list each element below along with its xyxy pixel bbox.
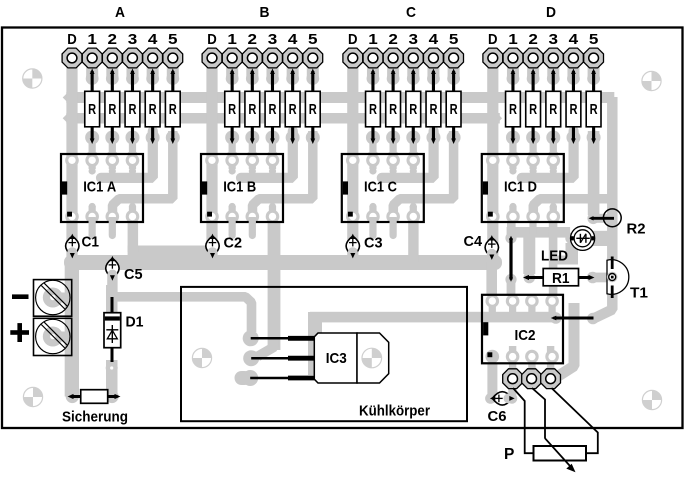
- svg-text:C6: C6: [488, 408, 507, 425]
- resistor B2: [245, 69, 260, 145]
- svg-text:R: R: [309, 101, 317, 118]
- screw terminal plus: [36, 319, 70, 353]
- trace pad under minus screw: [43, 288, 70, 308]
- svg-text:R: R: [289, 101, 297, 118]
- wire pot left: [513, 388, 534, 453]
- screw terminal minus: [36, 280, 70, 314]
- svg-text:IC3: IC3: [326, 351, 347, 367]
- pad labels group C: [348, 31, 458, 48]
- svg-text:R: R: [429, 101, 437, 118]
- svg-text:R2: R2: [627, 221, 646, 238]
- svg-text:5: 5: [168, 31, 178, 48]
- trace fuse right pad: [105, 390, 118, 403]
- svg-text:3: 3: [128, 31, 138, 48]
- fiducial heatsink: [192, 348, 211, 367]
- svg-text:R: R: [590, 101, 598, 118]
- svg-text:2: 2: [528, 31, 538, 48]
- svg-text:R: R: [228, 101, 236, 118]
- resistor D5: [586, 69, 601, 145]
- svg-text:D1: D1: [126, 314, 145, 331]
- trace LED feed band from IC1 D: [507, 217, 570, 238]
- resistor B5: [305, 69, 320, 145]
- trace stubs below IC1 B pads 2-3: [229, 217, 256, 239]
- svg-text:Kühlkörper: Kühlkörper: [359, 403, 430, 420]
- svg-text:1: 1: [508, 31, 518, 48]
- potentiometer P body: [534, 446, 587, 461]
- trace vertical IC1 D pad4 area to IC2 pad4: [549, 232, 558, 301]
- trace cap pads C2: [207, 234, 218, 262]
- resistor B1: [225, 69, 240, 145]
- op-amp IC2: [482, 294, 563, 363]
- trace cap pads C1: [67, 234, 78, 262]
- svg-text:IC1 D: IC1 D: [504, 179, 537, 195]
- resistor A4: [145, 69, 160, 145]
- trace lower band to D1 and IC3 pin1: [108, 297, 252, 332]
- resistor D4: [566, 69, 581, 145]
- trace wire W2 bottom pad and stub: [505, 274, 516, 301]
- svg-text:IC1 C: IC1 C: [364, 179, 397, 195]
- svg-text:3: 3: [549, 31, 559, 48]
- svg-text:R: R: [369, 101, 377, 118]
- trace IC1 A pad4 to C2 link: [128, 217, 215, 257]
- svg-text:3: 3: [268, 31, 278, 48]
- trace cap pads C4: [487, 234, 498, 262]
- svg-text:C4: C4: [464, 233, 483, 250]
- trace resistor bottom pads group D: [506, 131, 601, 166]
- transistor IC3 body: [314, 333, 388, 383]
- trace R2 pad: [587, 213, 613, 225]
- trace IC2 bottom pads to solder octagons: [509, 356, 554, 373]
- solder pads group B (D,1-5): [202, 48, 323, 68]
- trace L-route resistor D4 into IC1 D: [517, 131, 574, 178]
- svg-text:R: R: [248, 101, 256, 118]
- wire jumper W2: [509, 236, 513, 282]
- svg-text:R: R: [169, 101, 177, 118]
- trace resistor bottom pads group A: [85, 131, 180, 166]
- trace D-net vertical group A (pad D to IC1 A pin 1 to cap): [66, 62, 77, 260]
- trace pad stubs group D pads 1-5: [507, 62, 600, 85]
- trace IC2 wire pad right: [587, 313, 599, 325]
- svg-text:R: R: [509, 101, 517, 118]
- svg-text:R: R: [108, 101, 116, 118]
- trace band right vertical into IC1 D to bottom pad 3: [533, 199, 612, 217]
- diode D1: [104, 297, 121, 362]
- capacitor C6: [490, 392, 515, 405]
- trace C6 left stub to IC2: [487, 356, 497, 398]
- wire pot middle: [532, 388, 545, 439]
- trace T1 pad top: [607, 253, 618, 264]
- trace L-route resistor C4 into IC1 C: [377, 131, 434, 178]
- solder pads group D (D,1-5): [483, 48, 604, 68]
- svg-text:IC1 B: IC1 B: [223, 179, 256, 195]
- solder pad IC2 out 3: [541, 369, 561, 389]
- resistor D3: [546, 69, 561, 145]
- solder pad IC2 out 2: [522, 369, 542, 389]
- svg-text:R: R: [268, 101, 276, 118]
- trace terminal vertical bus-to-fuse: [65, 262, 79, 397]
- resistor A1: [85, 69, 100, 145]
- capacitor C3: [346, 234, 359, 259]
- svg-text:R: R: [149, 101, 157, 118]
- trace horizontal bus 2 behind resistors: [66, 113, 500, 124]
- trace resistor bottom pads group C: [366, 131, 461, 166]
- svg-text:1: 1: [368, 31, 378, 48]
- svg-text:C: C: [406, 4, 416, 21]
- trace D-net vertical group B (pad D to IC1 B pin 1 to cap): [206, 62, 217, 260]
- trace L-route resistor A5 into IC1 A: [113, 131, 173, 217]
- svg-text:R: R: [389, 101, 397, 118]
- label minus terminal: [12, 294, 29, 299]
- svg-text:D: D: [207, 31, 217, 48]
- svg-text:4: 4: [569, 31, 579, 48]
- trace R1 left feed: [524, 234, 536, 283]
- op-amp IC1 B: [201, 154, 283, 224]
- svg-text:2: 2: [388, 31, 398, 48]
- svg-text:A: A: [115, 4, 125, 21]
- svg-text:5: 5: [589, 31, 599, 48]
- svg-text:P: P: [504, 446, 514, 463]
- svg-text:C1: C1: [82, 234, 100, 251]
- trace L-route resistor A4 into IC1 A: [96, 131, 153, 178]
- svg-text:Sicherung: Sicherung: [62, 409, 128, 426]
- capacitor C5: [106, 256, 119, 281]
- capacitor C2: [206, 234, 219, 259]
- resistor C1: [366, 69, 381, 145]
- trace IC3 pad 2: [243, 350, 259, 366]
- trace cap pads C3: [347, 234, 358, 262]
- trace T1 pad bottom: [607, 289, 618, 300]
- resistor C5: [446, 69, 461, 145]
- trace L-route resistor B4 into IC1 B: [236, 131, 293, 178]
- transistor T1: [607, 257, 629, 299]
- trace pad stubs group A pads 1-5: [86, 62, 179, 85]
- trace R1 to T1 link: [589, 273, 614, 283]
- solder pads group A (D,1-5): [62, 48, 183, 68]
- fiducial bottom-right: [642, 390, 661, 409]
- trace IC3 hidden vertical behind body: [308, 312, 322, 375]
- trace IC3 pad 1: [243, 330, 259, 346]
- svg-text:IC2: IC2: [515, 328, 536, 344]
- op-amp IC1 A: [61, 154, 143, 224]
- svg-text:T1: T1: [630, 285, 649, 302]
- trace IC3 pad 3: [235, 370, 259, 386]
- capacitor C1: [66, 234, 79, 259]
- trace C5 stub bus to lower band: [107, 262, 117, 296]
- svg-text:D: D: [67, 31, 77, 48]
- svg-text:3: 3: [409, 31, 419, 48]
- svg-text:LED: LED: [541, 248, 568, 265]
- trace main right vertical band1 to IC2 wire pad: [594, 97, 612, 318]
- trace IC1 C pad4 stub to bus: [408, 217, 418, 262]
- resistor C4: [426, 69, 441, 145]
- svg-text:5: 5: [449, 31, 459, 48]
- resistor A5: [165, 69, 180, 145]
- solder pads group C (D,1-5): [343, 48, 464, 68]
- svg-text:4: 4: [429, 31, 439, 48]
- trace fuse left pad: [66, 390, 79, 403]
- trace C4 to IC2 pad1 stub: [486, 262, 497, 301]
- svg-text:C3: C3: [364, 235, 383, 252]
- trace D-net vertical group D (pad D to IC1 D pin 1 to cap): [487, 62, 498, 260]
- svg-text:C2: C2: [224, 235, 243, 252]
- trace C6 pads: [485, 380, 517, 404]
- svg-text:R: R: [88, 101, 96, 118]
- trace junction flares: [63, 88, 502, 273]
- svg-text:4: 4: [148, 31, 158, 48]
- svg-text:4: 4: [288, 31, 298, 48]
- resistor A3: [125, 69, 140, 145]
- LED: [570, 226, 595, 250]
- capacitor C4: [485, 235, 498, 260]
- trace horizontal bus 1 behind resistors: [66, 92, 614, 103]
- resistor C2: [386, 69, 401, 145]
- resistor D2: [526, 69, 541, 145]
- svg-text:5: 5: [308, 31, 318, 48]
- trace T1 pad middle: [607, 272, 618, 283]
- svg-text:R: R: [128, 101, 136, 118]
- trace IC1 B pad4 to IC3 pin2 vertical: [258, 217, 281, 357]
- fiducial bottom-left: [23, 387, 42, 406]
- resistor D1: [506, 69, 521, 145]
- trace LED right pad to vertical: [590, 231, 608, 246]
- svg-text:B: B: [260, 4, 270, 21]
- svg-text:R: R: [409, 101, 417, 118]
- svg-text:C5: C5: [124, 266, 143, 283]
- label plus terminal: [10, 323, 29, 342]
- trace L-route resistor B5 into IC1 B: [253, 131, 313, 217]
- resistor R1: [523, 269, 595, 287]
- pad labels group A: [67, 31, 177, 48]
- resistor A2: [105, 69, 120, 145]
- solder pad IC2 out 1: [503, 369, 523, 389]
- fiducial top-left: [23, 69, 42, 88]
- pad labels group D: [488, 31, 598, 48]
- op-amp IC1 D: [482, 154, 564, 224]
- svg-text:2: 2: [248, 31, 258, 48]
- trace stubs below IC1 C pads 2-3: [369, 217, 396, 239]
- fuse Sicherung: [68, 390, 121, 404]
- trace D1 bottom to fuse: [106, 360, 118, 398]
- svg-text:D: D: [546, 4, 556, 21]
- trace main horizontal bus mid-board: [64, 255, 502, 270]
- trace pad stubs group C pads 1-5: [367, 62, 460, 85]
- trace LED left pad and stub down: [550, 233, 578, 265]
- pad labels group B: [207, 31, 317, 48]
- wire link IC2 to T1 net: [551, 316, 594, 321]
- heatsink Kuehlkoerper outline: [181, 287, 467, 421]
- trace pad under plus screw: [43, 327, 70, 347]
- fiducial top-right: [642, 71, 661, 90]
- transistor IC3 leads: [250, 338, 315, 378]
- resistor R2: [589, 209, 622, 227]
- resistor B3: [265, 69, 280, 145]
- trace resistor bottom pads group B: [225, 131, 320, 166]
- svg-text:R: R: [549, 101, 557, 118]
- trace stubs below IC1 A pads 2-3: [89, 217, 116, 239]
- trace vertical resistor D5 to R2 pad: [588, 131, 600, 215]
- svg-text:1: 1: [227, 31, 237, 48]
- svg-text:2: 2: [108, 31, 118, 48]
- potentiometer P wiper arrow: [545, 438, 576, 472]
- op-amp IC1 C: [342, 154, 424, 224]
- svg-text:R1: R1: [552, 271, 570, 287]
- svg-text:R: R: [569, 101, 577, 118]
- svg-text:R: R: [450, 101, 458, 118]
- svg-text:D: D: [488, 31, 498, 48]
- resistor B4: [285, 69, 300, 145]
- trace R1 right pad: [587, 272, 599, 284]
- terminal block outline: [34, 280, 72, 356]
- trace wire W2 top pad: [505, 232, 516, 243]
- trace L-route resistor C5 into IC1 C: [393, 131, 453, 217]
- svg-text:D: D: [348, 31, 358, 48]
- svg-text:IC1 A: IC1 A: [83, 179, 116, 195]
- resistor C3: [406, 69, 421, 145]
- trace D1 top stub: [106, 285, 118, 314]
- svg-text:R: R: [529, 101, 537, 118]
- svg-text:1: 1: [87, 31, 97, 48]
- trace D-net vertical group C (pad D to IC1 C pin 1 to cap): [347, 62, 358, 260]
- trace pad stubs group B pads 1-5: [226, 62, 319, 85]
- trace long band IC3 to IC2 interior: [310, 312, 556, 323]
- trace right lower vertical to octagon pad 3: [558, 303, 575, 377]
- wire pot right: [552, 388, 598, 453]
